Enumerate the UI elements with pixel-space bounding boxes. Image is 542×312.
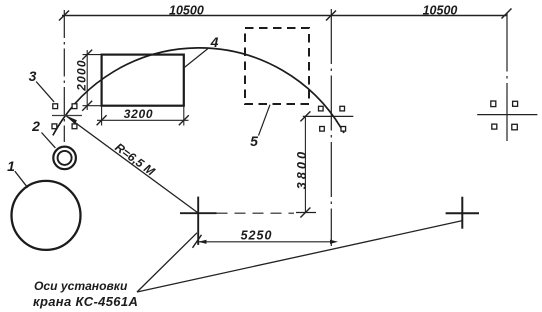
svg-text:2000: 2000 — [75, 59, 89, 92]
tower circle inner — [58, 151, 72, 165]
svg-text:3800: 3800 — [295, 149, 309, 190]
left cross cluster: horizontal line — [52, 115, 82, 117]
leader for 5 — [259, 105, 271, 136]
tick left — [59, 11, 69, 21]
svg-text:5250: 5250 — [241, 228, 273, 242]
far right square TL — [491, 101, 496, 107]
5250 tick left — [193, 235, 202, 248]
right cluster square TR — [340, 106, 345, 111]
outrigger cross bottom right: vertical — [461, 197, 463, 229]
far right square BL — [492, 124, 497, 129]
right cross cluster: horizontal line — [303, 115, 354, 117]
middle column axis (dash-dot) — [330, 9, 332, 246]
2000 tick bottom — [82, 101, 92, 111]
5250 arrow left — [198, 240, 206, 244]
svg-text:10500: 10500 — [423, 4, 458, 18]
far right square BR — [512, 124, 518, 130]
3200 tick right — [179, 115, 189, 125]
tower circle outer — [53, 147, 76, 170]
5250 dim line — [197, 241, 335, 243]
tick middle — [326, 11, 336, 21]
leader for 2 — [42, 133, 56, 148]
left column axis (dash-dot) — [63, 10, 65, 142]
leader for 1 — [15, 171, 28, 188]
svg-text:3200: 3200 — [124, 107, 154, 121]
3800 tick top — [300, 111, 310, 121]
leader for 4 — [185, 48, 209, 67]
3200 dim: extension line right — [183, 106, 185, 126]
left cluster square TR — [72, 104, 77, 109]
crane axis cross vertical — [197, 197, 199, 245]
3200 dim: extension line left — [101, 106, 103, 126]
right cluster square TL — [319, 106, 324, 111]
left cluster square BR — [72, 124, 77, 129]
leader for 3 — [36, 82, 54, 102]
top dimension line — [62, 15, 507, 17]
radius line R=6.5M — [67, 116, 198, 212]
3800 tick bottom — [300, 208, 310, 218]
outrigger cross bottom right: horizontal — [446, 212, 479, 214]
svg-text:1: 1 — [7, 158, 15, 174]
left cluster square TL — [53, 104, 58, 109]
svg-text:4: 4 — [210, 34, 219, 50]
svg-text:3: 3 — [29, 68, 37, 84]
5250 arrow right — [330, 240, 338, 244]
left cluster square BL — [52, 124, 57, 129]
svg-text:5: 5 — [250, 133, 258, 149]
right column axis (dash-dot) — [506, 14, 508, 144]
tick right — [502, 9, 512, 19]
dashed connector from cross to 3800 — [217, 212, 295, 214]
note leader upper (to crane cross) — [137, 233, 197, 292]
2000 dim line — [86, 50, 88, 110]
2000 tick top — [82, 50, 92, 60]
building rectangle — [102, 55, 184, 106]
dashed zone rectangle — [245, 28, 309, 104]
2000 dim: extension line top — [83, 54, 104, 56]
3200 tick left — [97, 115, 107, 125]
short line at 3800 bottom — [296, 212, 316, 214]
radius arrowhead — [65, 115, 77, 124]
crane jib arc R=6.5m — [53, 48, 344, 136]
svg-text:крана КС-4561А: крана КС-4561А — [33, 294, 138, 309]
svg-text:2: 2 — [31, 118, 40, 134]
right cluster square BL — [320, 127, 325, 132]
far right square TR — [513, 101, 518, 106]
3800 dim line — [304, 116, 306, 212]
crane axis cross (arc center) horizontal — [180, 212, 217, 214]
far right cluster horizontal line — [477, 114, 537, 116]
counterweight circle 1 — [12, 181, 81, 250]
right cluster square BR — [341, 127, 346, 132]
note leader lower (to outrigger cross) — [137, 221, 462, 292]
svg-text:10500: 10500 — [169, 4, 204, 18]
3200 dim line — [97, 119, 189, 121]
2000 dim: extension line bottom — [83, 105, 104, 107]
svg-text:Оси установки: Оси установки — [34, 279, 128, 293]
